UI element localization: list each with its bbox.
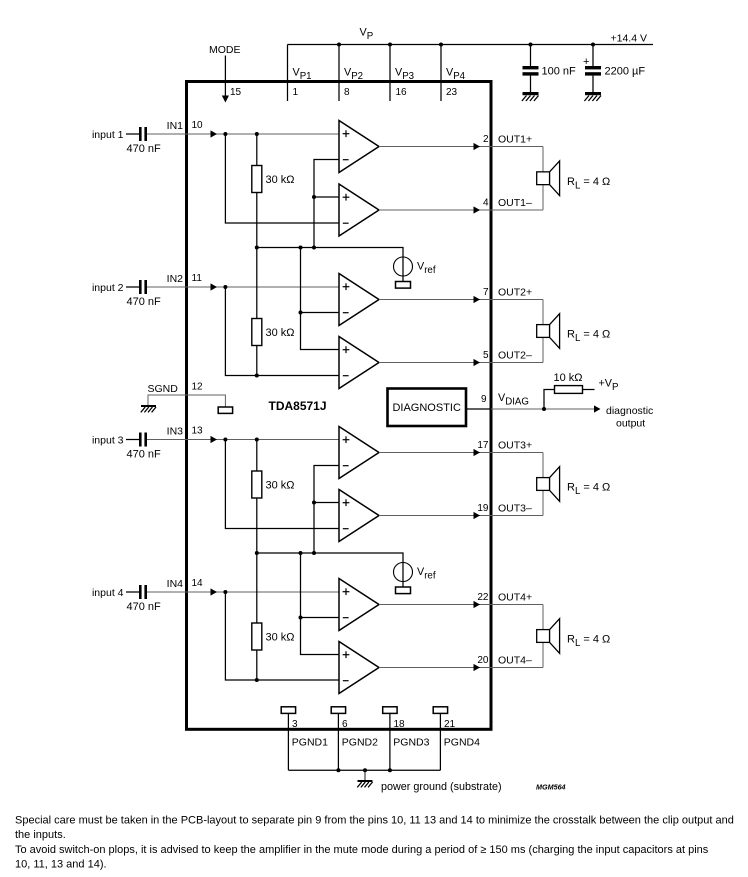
junction R1 at Vref rail xyxy=(255,246,259,250)
junction R2 at feedback line xyxy=(255,374,259,378)
wire input 3 lead xyxy=(126,439,139,441)
op-amp 4A non-inverting xyxy=(339,579,379,631)
svg-text:10, 11, 13 and 14).: 10, 11, 13 and 14). xyxy=(15,858,107,870)
wire VP4 pin stub xyxy=(440,45,442,102)
label IN2 xyxy=(167,273,184,285)
label IN4 xyxy=(167,578,184,590)
junction ref rail channel 4 xyxy=(299,551,303,555)
capacitor C2 2200 uF electrolytic xyxy=(583,56,601,76)
svg-text:MODE: MODE xyxy=(209,44,241,56)
svg-text:VP2: VP2 xyxy=(344,67,363,83)
value label 30 kOhm channel 4 xyxy=(266,632,295,644)
svg-text:14: 14 xyxy=(192,578,204,589)
label power ground (substrate) xyxy=(381,781,502,793)
junction R4 at feedback line xyxy=(255,678,259,682)
wire speaker bracket channel 2 xyxy=(542,300,544,363)
svg-text:IN1: IN1 xyxy=(167,120,184,132)
label +VP xyxy=(599,378,619,394)
label VP1 xyxy=(293,67,312,83)
speaker load channel 1 xyxy=(537,161,560,196)
label SGND xyxy=(148,383,179,395)
resistor 10 kOhm pull-up xyxy=(555,386,583,394)
label PGND2 xyxy=(342,737,378,749)
svg-text:input 3: input 3 xyxy=(92,435,124,447)
svg-text:5: 5 xyxy=(483,350,489,361)
wire input 4 lead xyxy=(126,591,139,593)
junction ref rail channel 3 xyxy=(312,551,316,555)
junction ref rail channel 2 xyxy=(299,246,303,250)
svg-text:IN2: IN2 xyxy=(167,273,184,285)
resistor R3 30 kOhm xyxy=(252,471,262,498)
svg-text:20: 20 xyxy=(477,655,489,666)
wire resistor R1 bottom xyxy=(256,193,258,248)
svg-text:30 kΩ: 30 kΩ xyxy=(266,174,295,186)
wire op-amp ref channel 1 xyxy=(314,160,339,248)
svg-text:OUT1+: OUT1+ xyxy=(498,134,532,146)
svg-text:100 nF: 100 nF xyxy=(542,66,577,78)
wire OUT1&#8211; to speaker xyxy=(379,206,543,213)
junction IN4 feedback xyxy=(223,590,227,594)
terminal PGND2 xyxy=(331,707,345,714)
pin 4 xyxy=(483,198,489,209)
wire feedback channel 3 xyxy=(225,440,339,529)
label OUT4+ xyxy=(498,592,532,604)
pin 1 xyxy=(293,87,299,98)
svg-text:15: 15 xyxy=(230,87,242,98)
junction on VP rail xyxy=(337,43,341,47)
wire IN1 to op-amp input xyxy=(147,130,339,137)
wire MODE into pin 15 xyxy=(222,56,229,103)
svg-text:input 2: input 2 xyxy=(92,282,124,294)
ground at C1 xyxy=(522,92,539,101)
wire OUT3&#8211; to speaker xyxy=(379,512,543,519)
label OUT2+ xyxy=(498,287,532,299)
pin 16 xyxy=(396,87,408,98)
svg-text:power ground (substrate): power ground (substrate) xyxy=(381,781,502,793)
pin 7 xyxy=(483,287,489,298)
junction PGND2 bus xyxy=(336,768,340,772)
wire resistor R2 top xyxy=(256,248,258,319)
junction IN1 feedback xyxy=(223,132,227,136)
svg-text:17: 17 xyxy=(477,440,489,451)
svg-text:PGND1: PGND1 xyxy=(292,737,328,749)
terminal substrate pin 12 xyxy=(218,407,232,413)
svg-text:TDA8571J: TDA8571J xyxy=(269,399,327,413)
junction diagnostic pull-up xyxy=(542,407,546,411)
wire Vref rail 2 xyxy=(257,553,403,587)
junction on VP rail xyxy=(439,43,443,47)
svg-text:470 nF: 470 nF xyxy=(127,601,162,613)
pin 14 xyxy=(192,578,204,589)
wire input 1 lead xyxy=(126,133,139,135)
svg-text:+: + xyxy=(583,56,589,68)
junction IN3 feedback xyxy=(223,438,227,442)
svg-text:+VP: +VP xyxy=(599,378,619,394)
wire OUT4+ to speaker xyxy=(379,601,543,608)
svg-text:7: 7 xyxy=(483,287,489,298)
note text xyxy=(15,815,734,871)
label input 2 xyxy=(92,282,124,294)
label RL = 4 Ohm channel 2 xyxy=(567,329,610,345)
label VP2 xyxy=(344,67,363,83)
label PGND4 xyxy=(444,737,480,749)
svg-text:19: 19 xyxy=(477,503,489,514)
label MODE xyxy=(209,44,241,56)
wire op-amp ref channel 2 xyxy=(301,248,340,350)
pin 21 xyxy=(444,719,456,730)
junction R3 at Vref rail xyxy=(255,551,259,555)
value label 2200 uF xyxy=(605,66,646,78)
svg-text:RL = 4 Ω: RL = 4 Ω xyxy=(567,329,610,345)
pin 3 xyxy=(292,719,298,730)
label OUT3+ xyxy=(498,440,532,452)
terminal PGND3 xyxy=(383,707,397,714)
svg-text:2: 2 xyxy=(483,134,489,145)
label RL = 4 Ohm channel 4 xyxy=(567,634,610,650)
resistor R4 30 kOhm xyxy=(252,623,262,650)
capacitor 470 nF input 3 xyxy=(139,433,147,447)
label Vref 2 xyxy=(417,566,436,582)
wire OUT3+ to speaker xyxy=(379,449,543,456)
svg-text:IN3: IN3 xyxy=(167,426,184,438)
junction IN2 feedback xyxy=(223,285,227,289)
junction IN1 resistor xyxy=(255,132,259,136)
svg-text:OUT1–: OUT1– xyxy=(498,197,532,209)
svg-text:RL = 4 Ω: RL = 4 Ω xyxy=(567,634,610,650)
svg-text:VP3: VP3 xyxy=(395,67,414,83)
value label 10 kOhm xyxy=(554,372,583,384)
svg-text:2200 µF: 2200 µF xyxy=(605,66,646,78)
wire OUT2&#8211; to speaker xyxy=(379,359,543,366)
wire ground tap xyxy=(364,770,366,781)
value label 30 kOhm channel 2 xyxy=(266,327,295,339)
svg-text:OUT2–: OUT2– xyxy=(498,350,532,362)
svg-text:diagnostic: diagnostic xyxy=(606,405,653,417)
pin 8 xyxy=(344,87,350,98)
svg-text:11: 11 xyxy=(192,273,203,284)
pin 15 xyxy=(230,87,242,98)
svg-text:470 nF: 470 nF xyxy=(127,296,162,308)
svg-text:input 4: input 4 xyxy=(92,587,124,599)
label VP3 xyxy=(395,67,414,83)
terminal PGND1 xyxy=(281,707,295,714)
svg-text:SGND: SGND xyxy=(148,383,179,395)
voltage source Vref 2 xyxy=(394,563,413,582)
pin 19 xyxy=(477,503,489,514)
wire resistor R4 top xyxy=(256,553,258,623)
pin 2 xyxy=(483,134,489,145)
net VP supply rail xyxy=(288,44,654,46)
value label 100 nF xyxy=(542,66,577,78)
pin 11 xyxy=(192,273,203,284)
wire feedback channel 4 xyxy=(225,592,339,680)
pin 13 xyxy=(192,426,204,437)
wire power ground bus xyxy=(288,769,440,771)
terminal PGND4 xyxy=(433,707,447,714)
svg-text:470 nF: 470 nF xyxy=(127,449,162,461)
label RL = 4 Ohm channel 3 xyxy=(567,482,610,498)
label input 3 xyxy=(92,435,124,447)
pin 20 xyxy=(477,655,489,666)
svg-text:VP1: VP1 xyxy=(293,67,312,83)
wire resistor R4 bottom xyxy=(256,650,258,680)
svg-text:input 1: input 1 xyxy=(92,129,124,141)
wire PGND2 to ground bus xyxy=(337,713,339,770)
svg-text:OUT4–: OUT4– xyxy=(498,655,532,667)
svg-text:Special care must be taken in: Special care must be taken in the PCB-la… xyxy=(15,815,734,827)
value label 470 nF input 3 xyxy=(127,449,162,461)
pin 5 xyxy=(483,350,489,361)
svg-text:RL = 4 Ω: RL = 4 Ω xyxy=(567,482,610,498)
wire feedback channel 2 xyxy=(225,287,339,376)
label input 4 xyxy=(92,587,124,599)
capacitor 470 nF input 1 xyxy=(139,127,147,141)
value label 470 nF input 4 xyxy=(127,601,162,613)
label IN1 xyxy=(167,120,184,132)
terminal Vref 1 xyxy=(396,282,411,289)
wire OUT4&#8211; to speaker xyxy=(379,664,543,671)
wire resistor R3 top xyxy=(256,440,258,472)
resistor R2 30 kOhm xyxy=(252,319,262,346)
value label 470 nF input 2 xyxy=(127,296,162,308)
junction on VP rail xyxy=(591,43,595,47)
svg-text:RL = 4 Ω: RL = 4 Ω xyxy=(567,176,610,192)
pin 6 xyxy=(342,719,348,730)
pin 9 xyxy=(481,394,487,405)
label OUT3&#8211; xyxy=(498,503,532,515)
wire op-amp ref channel 4 xyxy=(301,553,340,655)
wire resistor R2 bottom xyxy=(256,346,258,376)
svg-text:VP4: VP4 xyxy=(446,67,466,83)
junction ref to op-amp 2A minus xyxy=(299,311,303,315)
op-amp 2B inverting xyxy=(339,337,379,389)
op-amp 2A non-inverting xyxy=(339,274,379,326)
svg-text:VDIAG: VDIAG xyxy=(498,392,529,408)
pin 10 xyxy=(192,120,204,131)
wire speaker bracket channel 4 xyxy=(542,605,544,668)
label OUT1&#8211; xyxy=(498,197,532,209)
wire VP1 pin stub xyxy=(287,45,289,102)
IC label TDA8571J xyxy=(269,399,327,413)
block DIAGNOSTIC xyxy=(388,389,467,427)
junction ref to op-amp 1B plus xyxy=(312,195,316,199)
label OUT1+ xyxy=(498,134,532,146)
label MGM564 xyxy=(536,783,566,792)
svg-text:30 kΩ: 30 kΩ xyxy=(266,632,295,644)
junction on VP rail xyxy=(388,43,392,47)
wire IN2 to op-amp input xyxy=(147,283,339,290)
svg-text:Vref: Vref xyxy=(417,261,436,277)
svg-text:9: 9 xyxy=(481,394,487,405)
junction ref rail channel 1 xyxy=(312,246,316,250)
wire VP to capacitor C2 xyxy=(592,45,594,93)
svg-text:8: 8 xyxy=(344,87,350,98)
junction ref to op-amp 4A minus xyxy=(299,616,303,620)
svg-text:PGND4: PGND4 xyxy=(444,737,480,749)
op-amp 1B inverting xyxy=(339,184,379,236)
wire VP2 pin stub xyxy=(338,45,340,102)
pin 12 xyxy=(192,382,204,393)
ground at C2 xyxy=(584,92,601,101)
svg-text:output: output xyxy=(616,418,645,430)
svg-text:18: 18 xyxy=(394,719,406,730)
label PGND3 xyxy=(393,737,429,749)
capacitor 470 nF input 4 xyxy=(139,585,147,599)
svg-text:To avoid switch-on plops, it i: To avoid switch-on plops, it is advised … xyxy=(15,844,709,856)
IC package TDA8571J body outline xyxy=(187,82,492,730)
wire OUT2+ to speaker xyxy=(379,296,543,303)
svg-text:22: 22 xyxy=(477,592,489,603)
label PGND1 xyxy=(292,737,328,749)
svg-text:30 kΩ: 30 kΩ xyxy=(266,327,295,339)
value label 470 nF input 1 xyxy=(127,143,162,155)
wire SGND xyxy=(148,395,225,407)
wire OUT1+ to speaker xyxy=(379,143,543,150)
wire IN4 to op-amp input xyxy=(147,588,339,595)
wire input 2 lead xyxy=(126,286,139,288)
junction ground tap xyxy=(363,768,367,772)
wire Vref rail 1 xyxy=(257,248,403,282)
label OUT4&#8211; xyxy=(498,655,532,667)
svg-text:VP: VP xyxy=(360,27,374,43)
svg-text:16: 16 xyxy=(396,87,408,98)
pin 17 xyxy=(477,440,489,451)
svg-text:OUT4+: OUT4+ xyxy=(498,592,532,604)
op-amp 1A non-inverting xyxy=(339,121,379,173)
ground SGND xyxy=(141,406,156,412)
svg-text:OUT3–: OUT3– xyxy=(498,503,532,515)
svg-text:IN4: IN4 xyxy=(167,578,184,590)
wire op-amp ref channel 3 xyxy=(314,466,339,554)
svg-text:3: 3 xyxy=(292,719,298,730)
ground power ground xyxy=(357,781,372,787)
speaker load channel 2 xyxy=(537,314,560,349)
junction on VP rail xyxy=(529,43,533,47)
wire VP3 pin stub xyxy=(389,45,391,102)
wire VP to capacitor C1 xyxy=(530,45,532,93)
wire DIAGNOSTIC to pin 9 xyxy=(466,408,491,410)
label VP4 xyxy=(446,67,466,83)
svg-text:OUT2+: OUT2+ xyxy=(498,287,532,299)
wire resistor R3 bottom xyxy=(256,498,258,553)
label RL = 4 Ohm channel 1 xyxy=(567,176,610,192)
svg-text:30 kΩ: 30 kΩ xyxy=(266,480,295,492)
wire resistor R1 top xyxy=(256,134,258,166)
label +14.4 V xyxy=(611,33,648,45)
junction IN3 resistor xyxy=(255,438,259,442)
svg-text:OUT3+: OUT3+ xyxy=(498,440,532,452)
wire speaker bracket channel 1 xyxy=(542,147,544,211)
op-amp 4B inverting xyxy=(339,642,379,694)
terminal Vref 2 xyxy=(396,587,411,594)
value label 30 kOhm channel 3 xyxy=(266,480,295,492)
svg-text:PGND3: PGND3 xyxy=(393,737,429,749)
svg-text:470 nF: 470 nF xyxy=(127,143,162,155)
wire speaker bracket channel 3 xyxy=(542,453,544,516)
svg-text:+14.4 V: +14.4 V xyxy=(611,33,648,45)
junction ref to op-amp 3B plus xyxy=(312,501,316,505)
svg-text:PGND2: PGND2 xyxy=(342,737,378,749)
svg-text:6: 6 xyxy=(342,719,348,730)
label Vref 1 xyxy=(417,261,436,277)
label VP xyxy=(360,27,374,43)
speaker load channel 4 xyxy=(537,619,560,654)
value label 30 kOhm channel 1 xyxy=(266,174,295,186)
svg-text:12: 12 xyxy=(192,382,204,393)
pin 18 xyxy=(394,719,406,730)
op-amp 3A non-inverting xyxy=(339,427,379,479)
label diagnostic output xyxy=(606,405,653,430)
svg-text:10: 10 xyxy=(192,120,204,131)
svg-text:4: 4 xyxy=(483,198,489,209)
svg-text:13: 13 xyxy=(192,426,204,437)
capacitor C1 100 nF xyxy=(523,66,539,76)
svg-text:23: 23 xyxy=(446,87,458,98)
op-amp 3B inverting xyxy=(339,490,379,542)
svg-text:Vref: Vref xyxy=(417,566,436,582)
junction PGND3 bus xyxy=(388,768,392,772)
svg-text:the inputs.: the inputs. xyxy=(15,829,66,841)
speaker load channel 3 xyxy=(537,467,560,502)
label input 1 xyxy=(92,129,124,141)
label VDIAG xyxy=(498,392,529,408)
svg-text:DIAGNOSTIC: DIAGNOSTIC xyxy=(392,402,461,414)
resistor R1 30 kOhm xyxy=(252,166,262,193)
wire PGND4 to ground bus xyxy=(439,713,441,770)
wire diagnostic output xyxy=(491,405,601,412)
svg-text:21: 21 xyxy=(444,719,456,730)
label IN3 xyxy=(167,426,184,438)
pin 23 xyxy=(446,87,458,98)
voltage source Vref 1 xyxy=(394,257,413,276)
svg-text:1: 1 xyxy=(293,87,299,98)
wire pull-up xyxy=(544,390,595,410)
svg-text:10 kΩ: 10 kΩ xyxy=(554,372,583,384)
label OUT2&#8211; xyxy=(498,350,532,362)
wire PGND3 to ground bus xyxy=(389,713,391,770)
svg-text:MGM564: MGM564 xyxy=(536,783,566,792)
wire IN3 to op-amp input xyxy=(147,436,339,443)
wire feedback channel 1 xyxy=(225,134,339,223)
wire PGND1 to ground bus xyxy=(287,713,289,770)
capacitor 470 nF input 2 xyxy=(139,280,147,294)
pin 22 xyxy=(477,592,489,603)
